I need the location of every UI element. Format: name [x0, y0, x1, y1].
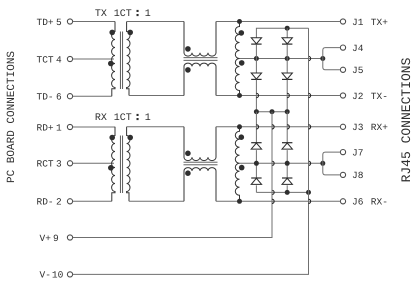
svg-text:9: 9: [53, 233, 59, 244]
svg-text:1CT: 1CT: [114, 9, 132, 20]
wire choke L1 to J2 TX- rail: [216, 95, 340, 97]
svg-text:J8: J8: [352, 170, 364, 181]
wire D1-D3 column segment: [255, 44, 257, 73]
common-mode choke L2 windings (RX): [184, 127, 218, 202]
hop V+ over J6 rail: [272, 199, 274, 203]
pin J2 TX-: [340, 91, 388, 102]
junction RX bottom bus col2: [285, 190, 290, 195]
autotransformer winding L3 (TX): [235, 22, 239, 96]
svg-text:J7: J7: [352, 147, 363, 158]
diode D6 (RX col2 upper): [282, 143, 292, 149]
hop V- over J6 rail: [309, 199, 311, 203]
svg-text:J6: J6: [352, 197, 364, 208]
svg-text:RJ45 CONNECTIONS: RJ45 CONNECTIONS: [399, 57, 414, 182]
diode D2 (TX col2 upper): [282, 38, 292, 44]
transformer T2 core: [120, 136, 122, 194]
wire RX diode bottom bus: [256, 191, 308, 193]
diode D3 (TX col1 lower): [251, 73, 261, 79]
pin J4: [340, 43, 363, 54]
polarity dot T2 primary: [109, 135, 115, 141]
pin J7: [340, 147, 363, 158]
wire T2 secondary top to choke L2: [127, 126, 184, 128]
svg-text:TD+: TD+: [37, 17, 54, 28]
hop col1 over J3 rail: [256, 125, 258, 129]
hop RX center line over V+ bus: [272, 161, 274, 165]
svg-text:V-: V-: [40, 270, 51, 281]
svg-text:6: 6: [56, 92, 62, 103]
polarity dot L3 tap: [239, 60, 245, 66]
wire pin3 to T2 center tap: [73, 162, 114, 164]
wire L4 tap to bracket J7/J8: [240, 162, 323, 164]
junction dot RX tap-D6 column: [285, 161, 290, 166]
wire col2 top stub: [286, 28, 288, 38]
diode D5 (RX col1 upper): [251, 143, 261, 149]
transformer T2 primary+secondary windings (RX 1CT:1): [112, 127, 130, 202]
polarity dot L2 top: [185, 151, 191, 157]
junction dot RX tap-D5 column: [254, 161, 259, 166]
polarity dot T2 secondary: [127, 135, 133, 141]
hop V- over J3 rail: [309, 125, 311, 129]
junction L3 bottom on J2 rail: [237, 93, 242, 98]
autotransformer winding L4 (RX): [235, 127, 239, 202]
pin J8: [340, 170, 363, 181]
wire col1 lower to mid bus: [255, 80, 257, 112]
svg-text:1: 1: [56, 122, 62, 133]
wire pin4 to T1 center tap: [73, 58, 114, 60]
wire col2 lower to mid bus: [286, 80, 288, 112]
svg-text:TD-: TD-: [37, 92, 54, 103]
junction L3 top on J1 rail: [237, 19, 242, 24]
wire D2-D4 column segment: [286, 44, 288, 73]
pin J1 TX+: [340, 17, 388, 28]
wire V+ from pin9 up to mid bus: [73, 112, 272, 238]
wire pin2 to T2 primary bottom: [73, 200, 112, 202]
svg-text:TX+: TX+: [371, 17, 388, 28]
wire bracket to J4 and J5: [323, 48, 341, 70]
pin TD- 6: [37, 92, 73, 103]
svg-text:PC BOARD CONNECTIONS: PC BOARD CONNECTIONS: [6, 51, 18, 183]
pin V- 10: [40, 270, 73, 281]
svg-text:RX-: RX-: [371, 197, 388, 208]
hop RX center line over V- bus: [309, 161, 311, 165]
junction L4 bottom on J6 rail: [237, 199, 242, 204]
svg-text:J3: J3: [352, 122, 364, 133]
polarity dot L2 bottom: [185, 170, 191, 176]
wire choke L1 to J1 TX+ rail: [216, 21, 340, 23]
hop center line over V- bus: [309, 56, 311, 60]
svg-text:J5: J5: [352, 65, 364, 76]
junction mid bus col2: [285, 109, 290, 114]
svg-text:1: 1: [145, 9, 151, 20]
wire T1 secondary bottom to choke L1: [129, 95, 184, 97]
polarity dot T1 secondary: [127, 30, 133, 36]
svg-text:TCT: TCT: [37, 54, 54, 65]
wire col1 mid bus to D5: [255, 112, 257, 143]
wire TX diode top bus: [256, 28, 308, 38]
polarity dot T1 primary: [109, 30, 115, 36]
polarity dot L4 top: [239, 134, 245, 140]
wire col2 mid bus to D6: [286, 112, 288, 143]
svg-text:RD-: RD-: [37, 197, 54, 208]
svg-text:1CT: 1CT: [114, 113, 132, 124]
pin TCT 4: [37, 54, 73, 65]
svg-text:RCT: RCT: [37, 159, 54, 170]
svg-text:TX: TX: [95, 9, 107, 20]
junction L4 top on J3 rail: [237, 124, 242, 129]
diode D7 (RX col1 lower): [251, 178, 261, 184]
wire D5-D7 column segment: [255, 150, 257, 178]
wire T1 secondary top to choke L1: [127, 21, 184, 23]
svg-text:5: 5: [56, 17, 62, 28]
svg-text:J1: J1: [352, 17, 364, 28]
wire V- from pin10 up to TX diode bus: [73, 28, 309, 274]
svg-text:V+: V+: [40, 233, 52, 244]
junction dot tap-D2 column: [285, 56, 290, 61]
svg-text:2: 2: [56, 197, 62, 208]
diode D4 (TX col2 lower): [282, 73, 292, 79]
hop col1 over J2 rail: [256, 93, 258, 97]
svg-text:10: 10: [52, 270, 64, 281]
svg-text:J4: J4: [352, 43, 364, 54]
pin J5: [340, 65, 363, 76]
wire pin1 to T2 primary top: [73, 126, 115, 128]
polarity dot L4 tap: [239, 165, 245, 171]
transformer T1 primary+secondary windings (TX 1CT:1): [112, 22, 130, 97]
label transformer T1: TX 1CT:1: [95, 9, 151, 20]
transformer T1 core: [120, 32, 122, 90]
wire pin5 to T1 primary top: [73, 21, 115, 23]
junction RX bottom bus V- tap: [306, 190, 311, 195]
hop V+ over J3 rail: [272, 125, 274, 129]
wire L3 tap to bracket J4/J5: [240, 58, 323, 60]
right side caption: RJ45 CONNECTIONS: [399, 57, 414, 182]
wire bracket to J7 and J8: [323, 152, 341, 175]
pin RD- 2: [37, 197, 73, 208]
wire col2 D8 to RX bottom bus: [286, 185, 288, 192]
svg-text:RD+: RD+: [37, 122, 54, 133]
pin J3 RX+: [340, 122, 388, 133]
pin J6 RX-: [340, 197, 388, 208]
junction dot RX tap-bracket: [320, 161, 325, 166]
pin RD+ 1: [37, 122, 73, 133]
left side caption: PC BOARD CONNECTIONS: [6, 51, 18, 183]
wire D6-D8 column segment: [286, 150, 288, 178]
svg-text:J2: J2: [352, 91, 364, 102]
wire pin6 to T1 primary bottom: [73, 95, 112, 97]
wire T2 secondary bottom to choke L2: [129, 200, 184, 202]
common-mode choke L1 windings (TX): [184, 22, 218, 96]
junction dot tap-D1 column: [254, 56, 259, 61]
wire middle bus: [256, 111, 287, 113]
hop RX bottom bus over V+ bus: [272, 190, 274, 194]
svg-text:3: 3: [56, 159, 62, 170]
pin V+ 9: [40, 233, 73, 244]
junction dot top bus col2: [285, 26, 290, 31]
wire choke L2 to J6 RX- rail: [216, 200, 340, 202]
label transformer T2: RX 1CT:1: [95, 113, 151, 124]
hop col2 over J2 rail: [287, 93, 289, 97]
polarity dot L1 top: [185, 46, 191, 52]
junction mid bus V+ tap: [270, 109, 275, 114]
hop col2 over J3 rail: [287, 125, 289, 129]
pin RCT 3: [37, 159, 73, 170]
hop V- over J2 rail: [309, 93, 311, 97]
diode D1 (TX col1 upper): [251, 38, 261, 44]
center-tap dot T2: [108, 165, 114, 171]
svg-text:4: 4: [56, 54, 62, 65]
polarity dot L1 bottom: [185, 67, 191, 73]
junction mid bus col1: [254, 109, 259, 114]
diode D8 (RX col2 lower): [282, 178, 292, 184]
pin TD+ 5: [37, 17, 73, 28]
svg-text:1: 1: [145, 113, 151, 124]
junction dot tap-bracket: [320, 56, 325, 61]
wire col1 D7 to RX bottom bus: [255, 185, 257, 192]
wire choke L2 to J3 RX+ rail: [216, 126, 340, 128]
polarity dot L3 top: [239, 30, 245, 36]
svg-text:TX-: TX-: [371, 91, 388, 102]
svg-text:RX: RX: [95, 113, 107, 124]
center-tap dot T1: [108, 61, 114, 67]
svg-text:RX+: RX+: [371, 122, 388, 133]
